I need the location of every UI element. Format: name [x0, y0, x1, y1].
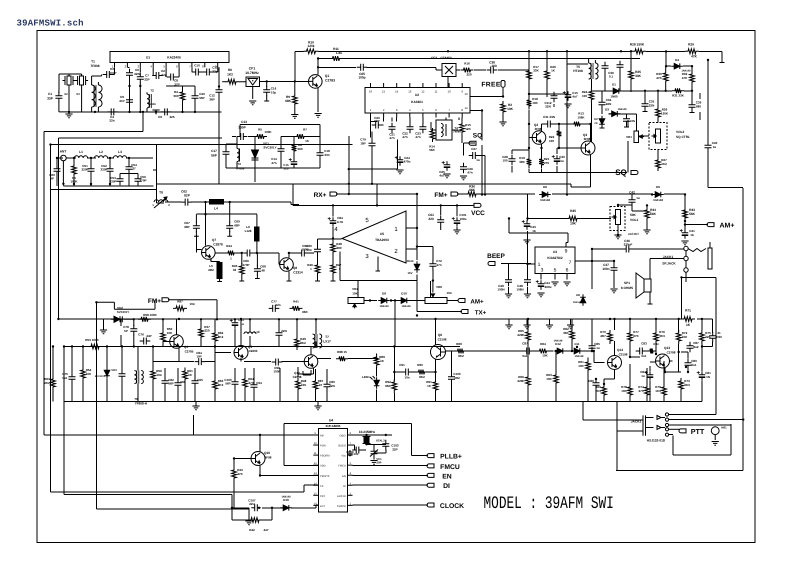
capacitor C27 1u [469, 147, 485, 195]
transistor Q5 C2203 [234, 345, 258, 360]
capacitor C35 22N [642, 91, 655, 112]
svg-text:14: 14 [395, 90, 399, 94]
wire CF1 to Q1 base [260, 80, 309, 82]
capacitor C98 100P [272, 359, 283, 374]
svg-text:22N: 22N [134, 72, 140, 76]
svg-text:68K: 68K [285, 99, 292, 103]
svg-text:13: 13 [408, 90, 412, 94]
svg-text:13: 13 [464, 92, 468, 96]
svg-text:4R7: 4R7 [600, 334, 606, 338]
speaker SP1 8 OHMS [621, 273, 653, 304]
resistor R45 33 [232, 253, 244, 281]
resistor R26b 120K [656, 91, 669, 123]
wire U2 pin14 SQ [464, 111, 483, 195]
svg-text:21P: 21P [119, 99, 124, 103]
svg-text:22N: 22N [281, 329, 287, 333]
capacitor C31 33N [543, 115, 555, 128]
capacitor C25 4u7 [439, 161, 450, 178]
svg-text:C42: C42 [629, 191, 635, 195]
capacitor C66 270P [242, 250, 253, 268]
svg-text:R5: R5 [258, 128, 262, 132]
IC U2 KA3361 [365, 83, 478, 118]
resistor R87b 3K3 [647, 342, 659, 353]
resistor R90 8K2 [416, 363, 428, 379]
svg-text:66K: 66K [385, 384, 391, 388]
svg-text:TX+: TX+ [475, 310, 487, 317]
svg-text:C3198: C3198 [438, 338, 447, 342]
svg-text:D1: D1 [612, 83, 616, 87]
capacitor C20 56P [372, 116, 383, 129]
svg-text:U4: U4 [329, 419, 333, 423]
capacitor C88 0u1 [685, 359, 698, 370]
resistor R16 220 [461, 62, 474, 77]
inductor L6 L126 [245, 214, 260, 253]
svg-text:105: 105 [301, 383, 306, 387]
potentiometer VOL1 50K [610, 205, 639, 239]
capacitor C67 68P [184, 214, 200, 236]
capacitor C68 48 [254, 253, 266, 279]
svg-text:100K: 100K [264, 130, 272, 134]
long wire C [58, 138, 222, 319]
svg-text:82P: 82P [184, 194, 191, 198]
svg-text:50K: 50K [630, 213, 637, 217]
resistor R46 1 [307, 262, 320, 276]
resistor R13b 106K [571, 112, 585, 127]
capacitor C41 22u [680, 229, 695, 245]
transistor Q2 3F98 [532, 123, 546, 144]
long wire E [96, 302, 249, 509]
svg-text:1b: 1b [690, 233, 694, 237]
svg-text:R64: R64 [540, 342, 546, 346]
resistor R41b 66K [290, 299, 309, 314]
svg-text:120k: 120k [307, 44, 314, 48]
resistor R87c 47 [313, 378, 323, 392]
svg-text:MODEL : 39AFM SWI: MODEL : 39AFM SWI [484, 494, 614, 514]
resistor R61b 10K [578, 359, 590, 373]
resistor R53 100K [85, 338, 102, 349]
ground Q1 emitter [315, 114, 322, 118]
right chain wires [522, 319, 713, 402]
svg-text:33: 33 [233, 268, 237, 272]
svg-text:8K2: 8K2 [218, 335, 224, 339]
svg-text:SQ CTRL: SQ CTRL [676, 135, 690, 139]
svg-text:R16: R16 [464, 62, 470, 66]
tag CLOCK [427, 503, 464, 510]
diode D1 1N60 [610, 83, 622, 99]
svg-text:C9: C9 [158, 115, 162, 119]
capacitor C51 220P [81, 164, 94, 175]
svg-text:104: 104 [189, 302, 194, 306]
capacitor C101 100u [452, 205, 467, 233]
resistor R60b 9K3 [595, 384, 606, 398]
svg-text:24P: 24P [146, 334, 151, 338]
capacitor C13 330P [237, 120, 248, 140]
resistor R62b 36K [563, 327, 574, 342]
svg-text:DI: DI [343, 485, 346, 488]
rail A top y51 [295, 51, 725, 62]
svg-text:10K: 10K [546, 377, 552, 381]
svg-text:225: 225 [169, 115, 174, 119]
svg-text:270P: 270P [139, 179, 146, 183]
svg-text:D3: D3 [605, 108, 609, 112]
resistor R19 39K [519, 156, 531, 168]
transistor Q7 C2878 [202, 238, 223, 259]
zener ZD4 4.7V ecap C84 [328, 216, 343, 227]
svg-text:RX+: RX+ [314, 192, 327, 199]
rail A left drop [294, 51, 296, 81]
diode D4 1N4148 [671, 58, 691, 73]
AM+ right wire [685, 221, 708, 230]
capacitor C39 680 [689, 91, 702, 113]
svg-text:CF8453: CF8453 [440, 56, 452, 60]
resistor R61 1K [183, 368, 193, 382]
svg-text:22N: 22N [329, 384, 335, 388]
resistor R5 100K [254, 128, 272, 139]
svg-text:22N: 22N [649, 104, 655, 108]
U3 top wire [509, 219, 568, 265]
wire U2 pin13 to FREE [478, 95, 503, 97]
tag AM+ (right) [707, 223, 734, 230]
tag FM+ (center) [434, 192, 458, 199]
resistor R32 47K [682, 66, 695, 91]
diode D9 1N4148 [378, 292, 390, 309]
svg-text:PLLB+: PLLB+ [440, 454, 462, 461]
capacitor C81c 1N [697, 371, 711, 381]
svg-text:C2878: C2878 [213, 243, 223, 247]
svg-text:10: 10 [448, 90, 452, 94]
svg-text:FMCU: FMCU [338, 465, 346, 468]
amp pin1 out [406, 227, 417, 229]
resistor R69 8K2 [455, 342, 467, 358]
resistor R27 1K2 [656, 157, 667, 171]
capacitor C91 10n [399, 363, 412, 380]
svg-text:SQ: SQ [473, 133, 482, 140]
svg-text:330P: 330P [100, 168, 107, 172]
svg-text:D5: D5 [656, 185, 660, 189]
svg-text:D9: D9 [382, 292, 386, 296]
svg-text:5P: 5P [124, 329, 128, 333]
vol wires [528, 195, 648, 241]
capacitor C84b 1u [640, 370, 653, 381]
resistor R89 1K [374, 354, 385, 368]
svg-text:KIA6278/2: KIA6278/2 [547, 256, 562, 260]
speaker circuit wires [592, 249, 684, 289]
resistor R8 560 [292, 142, 303, 154]
resistor R49 8K2 [295, 336, 306, 350]
svg-text:22U: 22U [249, 502, 255, 506]
resistor R70 4R7 [600, 330, 612, 344]
svg-text:18P: 18P [360, 142, 365, 146]
transformer T5 HT108 [573, 58, 598, 79]
svg-text:0u1: 0u1 [62, 376, 68, 380]
svg-text:20P: 20P [377, 461, 382, 465]
svg-text:47K: 47K [656, 76, 662, 80]
capacitor C65b 56P [192, 377, 204, 388]
wire C3 to pin1 [113, 67, 115, 74]
tag FM+ (lower) [96, 298, 217, 320]
wires under U2 [371, 118, 463, 144]
svg-text:22N: 22N [606, 102, 612, 106]
pll tag wires [353, 456, 429, 506]
svg-text:10K: 10K [682, 335, 688, 339]
svg-text:22N: 22N [545, 105, 551, 109]
capacitor C24 470u [395, 156, 411, 174]
resistor R29 47K [685, 43, 699, 59]
resistor R58 100K [138, 313, 158, 322]
svg-text:VCC: VCC [471, 210, 485, 217]
svg-text:T2: T2 [150, 89, 154, 93]
capacitor C44 400u [536, 280, 552, 297]
svg-text:L13: L13 [254, 330, 260, 334]
capacitor C52 330P [100, 164, 113, 175]
svg-text:R53 100K: R53 100K [85, 338, 99, 342]
capacitor C75 56P [62, 372, 75, 383]
capacitor C64 22N [276, 329, 287, 340]
capacitor C1 33P [47, 90, 69, 112]
svg-text:560: 560 [173, 94, 178, 98]
svg-text:VR6: VR6 [436, 285, 442, 289]
svg-text:39K: 39K [519, 160, 525, 164]
svg-text:1u: 1u [560, 159, 564, 163]
svg-text:C87: C87 [522, 342, 528, 346]
capacitor C42 1u [629, 191, 640, 212]
svg-text:L126: L126 [245, 229, 252, 233]
svg-text:Q8: Q8 [293, 266, 297, 270]
svg-text:CLOCK: CLOCK [440, 503, 464, 510]
capacitor C47 100n [602, 261, 617, 293]
svg-text:VDD: VDD [320, 465, 326, 468]
resistor R43 47K [232, 467, 244, 481]
svg-text:4.7U: 4.7U [337, 220, 343, 224]
svg-text:22P: 22P [144, 78, 149, 82]
svg-text:RIF: RIF [320, 435, 325, 438]
svg-text:R87: R87 [177, 299, 183, 303]
capacitor C53 330P [109, 175, 123, 186]
svg-text:223: 223 [428, 217, 434, 221]
svg-text:D4: D4 [675, 58, 679, 62]
transistor Q3 3F98 [581, 133, 595, 155]
svg-text:560: 560 [297, 147, 302, 151]
svg-text:1N4148: 1N4148 [281, 496, 291, 499]
capacitor C61 223 [428, 205, 444, 230]
diode D6 1N4148 [539, 185, 551, 202]
capacitor C80c 22N [324, 380, 336, 391]
svg-text:C3198: C3198 [619, 353, 628, 357]
capacitor C34 22N [599, 98, 612, 109]
svg-text:R35: R35 [570, 209, 576, 213]
svg-text:1N4148: 1N4148 [540, 198, 550, 202]
resistor R2 10K [499, 101, 513, 126]
svg-text:C94: C94 [256, 381, 262, 385]
svg-text:SQ: SQ [615, 168, 627, 177]
capacitor C82 56P [162, 377, 175, 388]
svg-text:39AFMSWI.sch: 39AFMSWI.sch [17, 19, 84, 29]
transistor Q13 C2785 [656, 346, 676, 368]
svg-text:R44: R44 [226, 244, 232, 248]
svg-text:R31 33K: R31 33K [672, 94, 685, 98]
svg-text:L2: L2 [99, 150, 103, 154]
transistor Q8 C2314 [280, 258, 303, 275]
svg-text:SVC201Y: SVC201Y [263, 146, 276, 150]
capacitor C90 [709, 331, 722, 342]
svg-text:5: 5 [554, 268, 557, 274]
svg-text:8 OHMS: 8 OHMS [621, 286, 633, 290]
resistor R18 10K [527, 97, 539, 109]
resistor R14 56K [429, 128, 435, 152]
svg-text:1u: 1u [641, 374, 645, 378]
capacitor C76 24P [138, 333, 151, 345]
svg-text:C2314: C2314 [293, 271, 303, 275]
svg-text:10K: 10K [532, 101, 538, 105]
svg-text:100P: 100P [273, 370, 280, 374]
svg-text:66K: 66K [302, 310, 308, 314]
capacitor C104 [346, 447, 366, 457]
svg-text:HSJ132-01D: HSJ132-01D [647, 439, 666, 443]
svg-text:86K: 86K [469, 188, 476, 192]
svg-text:1u: 1u [476, 158, 480, 162]
capacitor C72 47n [429, 259, 442, 270]
resistor R26 1K [545, 51, 556, 94]
svg-text:100: 100 [549, 139, 554, 143]
resistor R36 86K [465, 185, 479, 197]
svg-text:1N4148: 1N4148 [401, 305, 411, 308]
capacitor C12 36P [209, 67, 222, 184]
transistor Q1 C2783 [309, 74, 336, 88]
capacitor C40 1u [705, 141, 718, 152]
svg-text:10.245MHz: 10.245MHz [359, 430, 376, 434]
svg-text:C2783: C2783 [325, 79, 335, 83]
svg-text:AM+: AM+ [470, 299, 484, 306]
capacitor C103 22P [382, 440, 399, 452]
resistor R6 1K2 [222, 68, 239, 84]
svg-text:AUX DI: AUX DI [337, 495, 346, 498]
svg-text:220K: 220K [517, 333, 525, 337]
resistor R72 10K [676, 330, 688, 344]
svg-text:C104: C104 [352, 452, 359, 456]
capacitor C56 270P [135, 175, 147, 186]
wire C65 [318, 67, 436, 70]
trimmer VC1 20P [370, 447, 382, 464]
svg-text:8K2: 8K2 [419, 375, 425, 379]
svg-text:56P: 56P [211, 154, 218, 158]
svg-text:3F98: 3F98 [584, 137, 591, 141]
resistor R21 270 [539, 156, 549, 168]
svg-text:M01: M01 [721, 426, 727, 430]
svg-text:270P: 270P [242, 263, 249, 267]
svg-text:103: 103 [491, 64, 497, 68]
antenna filter wires [57, 158, 164, 203]
potentiometer VR6 104 [425, 281, 452, 304]
resistor R42 447 [248, 518, 269, 532]
svg-text:100: 100 [502, 159, 507, 163]
ground U3 pin6 [563, 282, 570, 286]
transformer T6 7F808-A [134, 371, 148, 406]
svg-text:2K2: 2K2 [44, 381, 50, 385]
diode D5 1N4148 [652, 185, 664, 202]
svg-text:1N: 1N [706, 375, 710, 379]
svg-text:7F808-A: 7F808-A [135, 402, 148, 406]
svg-text:PTT: PTT [691, 427, 705, 436]
svg-text:270: 270 [638, 389, 643, 393]
diode D11 1N4148 [571, 342, 584, 358]
svg-text:R29: R29 [688, 43, 694, 47]
svg-text:C2788: C2788 [667, 351, 676, 355]
capacitor C100 56P [224, 378, 238, 389]
svg-text:16V: 16V [408, 271, 413, 275]
gnd stubs [196, 402, 318, 407]
svg-text:9: 9 [565, 249, 568, 255]
svg-text:KA3361: KA3361 [411, 100, 423, 104]
jack nest wire [673, 424, 731, 455]
resistor R68 105 [296, 378, 307, 392]
capacitor C43 ecap [522, 220, 536, 233]
transistor Q14 C3198 [608, 348, 628, 370]
am row wire [348, 300, 458, 302]
ground tx rail [192, 406, 321, 410]
svg-text:8u2: 8u2 [693, 345, 699, 349]
capacitor C21 47n [389, 123, 396, 140]
svg-text:FMCU: FMCU [440, 464, 460, 471]
svg-text:47K: 47K [691, 55, 698, 59]
wire xtal top [59, 74, 82, 90]
svg-text:L3: L3 [118, 150, 122, 154]
svg-text:D11: D11 [575, 342, 580, 346]
svg-text:7F808: 7F808 [90, 64, 99, 68]
capacitor C83b 0u1 [636, 342, 647, 359]
svg-text:C17: C17 [211, 149, 217, 153]
capacitor C36b 22N [623, 115, 635, 126]
resistor R63b 9K3 [213, 378, 224, 392]
ground stub rail a [505, 319, 512, 329]
svg-text:Q14: Q14 [617, 348, 623, 352]
transformer T7 LX17 [313, 334, 331, 348]
svg-text:56K: 56K [650, 212, 657, 216]
wire CF3 path [436, 70, 529, 88]
potentiometer VR4 10K [348, 287, 364, 308]
svg-text:R7: R7 [303, 128, 307, 132]
inductor L3 [113, 150, 126, 158]
svg-text:EN: EN [342, 475, 346, 478]
svg-text:T3: T3 [237, 162, 241, 166]
svg-text:T7: T7 [325, 335, 329, 339]
svg-text:D16: D16 [283, 498, 289, 502]
svg-text:330P: 330P [109, 180, 116, 184]
diode D10 1N4148 [398, 292, 411, 309]
svg-text:BEEP: BEEP [487, 253, 505, 260]
svg-text:CF1: CF1 [249, 67, 256, 71]
svg-text:R69: R69 [456, 342, 462, 346]
svg-text:KA22406: KA22406 [167, 56, 181, 60]
long wire B [51, 145, 319, 492]
inductor L13 [244, 330, 260, 334]
svg-text:FREE: FREE [481, 82, 500, 89]
capacitor C30 1u [552, 155, 565, 165]
svg-text:ZD: ZD [594, 122, 597, 125]
capacitor C11 22p [203, 66, 218, 76]
capacitor C107 22U [245, 499, 260, 525]
svg-text:68P: 68P [184, 225, 189, 229]
capacitor C86 [588, 379, 599, 390]
tag FREE [481, 81, 505, 97]
op-amp U5 TBA2003 [334, 211, 406, 263]
svg-text:Q4: Q4 [184, 345, 188, 349]
svg-text:C65: C65 [197, 378, 203, 382]
svg-text:C27: C27 [471, 147, 477, 151]
svg-text:LX17: LX17 [323, 340, 331, 344]
resistor R11 1.8k [330, 47, 343, 61]
capacitor C80b 8u2 [687, 341, 700, 352]
ground C43 [523, 240, 530, 244]
